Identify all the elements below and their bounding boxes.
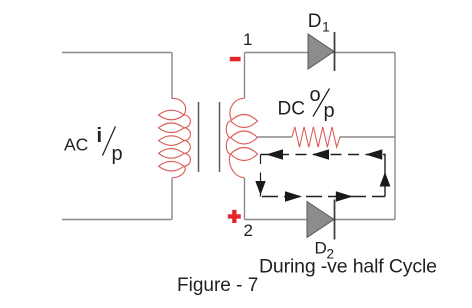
svg-text:Figure - 7: Figure - 7 [177, 275, 258, 296]
svg-text:o: o [310, 84, 321, 106]
svg-text:2: 2 [244, 221, 253, 240]
svg-text:During -ve half Cycle: During -ve half Cycle [259, 256, 437, 278]
svg-text:AC: AC [64, 135, 88, 155]
svg-text:1: 1 [322, 19, 330, 35]
svg-text:DC: DC [278, 99, 305, 120]
svg-text:D: D [308, 11, 322, 32]
svg-text:p: p [112, 143, 123, 165]
svg-text:1: 1 [243, 30, 252, 49]
svg-text:i: i [97, 125, 103, 147]
svg-text:p: p [324, 100, 335, 122]
